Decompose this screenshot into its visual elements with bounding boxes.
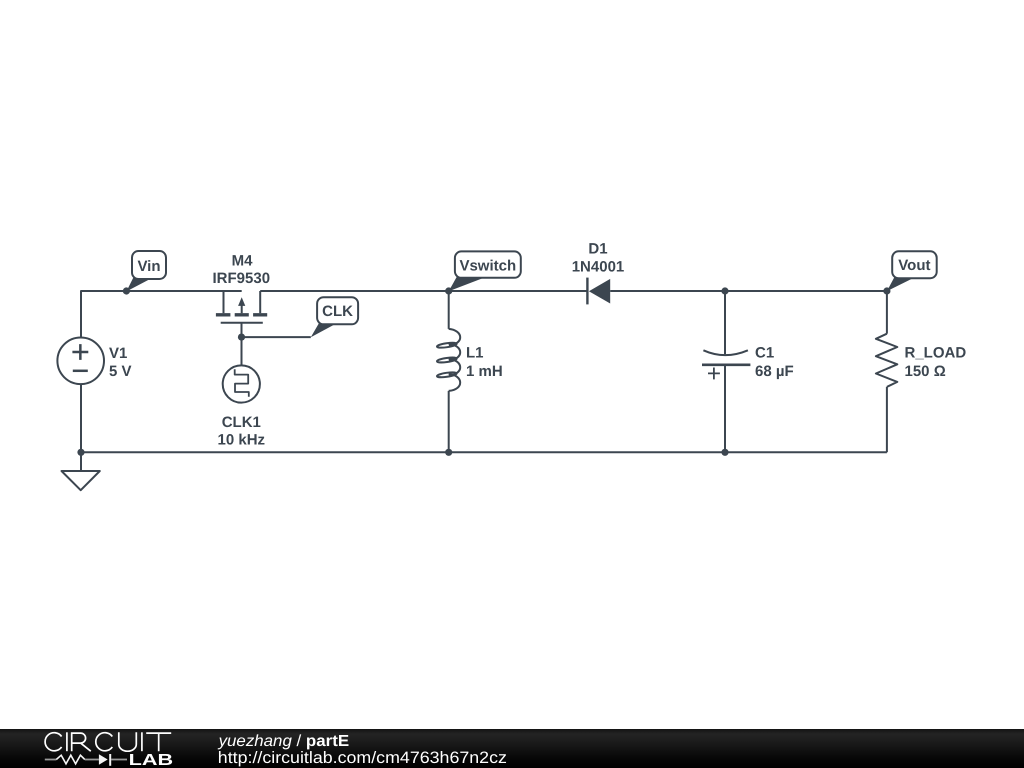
node junction dot Vout	[883, 287, 890, 294]
node junction dot Vin	[123, 287, 130, 294]
svg-text:yuezhang / partE: yuezhang / partE	[218, 733, 350, 750]
resistor R_LOAD	[876, 291, 897, 452]
svg-text:10 kHz: 10 kHz	[218, 431, 266, 448]
svg-text:1N4001: 1N4001	[572, 258, 625, 275]
svg-text:Vswitch: Vswitch	[459, 257, 516, 274]
svg-text:R_LOAD: R_LOAD	[905, 345, 967, 362]
wire V1 bottom lead	[80, 384, 82, 471]
flag Vswitch	[449, 251, 521, 291]
svg-text:IRF9530: IRF9530	[213, 270, 271, 287]
logo CIRCUIT letters	[45, 732, 171, 751]
label V1 5V	[109, 345, 132, 380]
svg-text:C1: C1	[755, 345, 774, 362]
node junction dot C1 bottom	[721, 449, 728, 456]
svg-text:http://circuitlab.com/cm4763h6: http://circuitlab.com/cm4763h67n2cz	[218, 749, 507, 767]
flag Vin	[126, 251, 166, 291]
node junction dot L1 top	[445, 287, 452, 294]
svg-text:68 µF: 68 µF	[755, 363, 794, 380]
label C1 68uF	[755, 345, 794, 381]
svg-text:V1: V1	[109, 345, 127, 362]
svg-text:150 Ω: 150 Ω	[905, 363, 946, 380]
flag Vout	[887, 251, 937, 291]
svg-text:D1: D1	[588, 241, 607, 258]
label D1 1N4001	[572, 241, 625, 276]
wire top-left segment Vin net	[81, 291, 242, 338]
node junction dot ground	[77, 449, 84, 456]
svg-text:CLK1: CLK1	[222, 414, 261, 431]
inductor L1	[437, 291, 460, 452]
capacitor C1	[702, 291, 750, 452]
node junction dot C1 top	[721, 287, 728, 294]
wire top-middle segment Vswitch net	[260, 290, 587, 292]
wire CLK stub	[242, 336, 311, 338]
flag CLK	[311, 297, 358, 337]
svg-text:1 mH: 1 mH	[466, 363, 503, 380]
ground	[62, 452, 100, 490]
svg-text:CLK: CLK	[322, 303, 353, 320]
label CLK1 10kHz	[218, 414, 266, 448]
svg-text:Vout: Vout	[898, 257, 930, 274]
svg-text:M4: M4	[232, 253, 253, 270]
clock source CLK1	[223, 365, 260, 402]
wire top-right segment Vout net	[610, 290, 887, 292]
svg-text:5 V: 5 V	[109, 363, 132, 380]
svg-text:Vin: Vin	[137, 258, 160, 275]
voltage source V1	[57, 338, 104, 385]
logo resistor-diode glyph	[45, 754, 127, 766]
transistor M4 PMOS	[216, 291, 267, 366]
footer bar	[0, 729, 1024, 768]
svg-text:LAB: LAB	[129, 752, 174, 768]
label L1 1mH	[466, 345, 503, 381]
node junction dot L1 bottom	[445, 449, 452, 456]
svg-text:L1: L1	[466, 345, 484, 362]
node junction dot gate	[238, 334, 245, 341]
label M4 IRF9530	[213, 253, 271, 288]
wire bottom ground net	[81, 451, 887, 453]
M4 body arrow	[238, 297, 245, 306]
diode D1	[586, 278, 588, 305]
label R_LOAD 150ohm	[905, 345, 967, 381]
